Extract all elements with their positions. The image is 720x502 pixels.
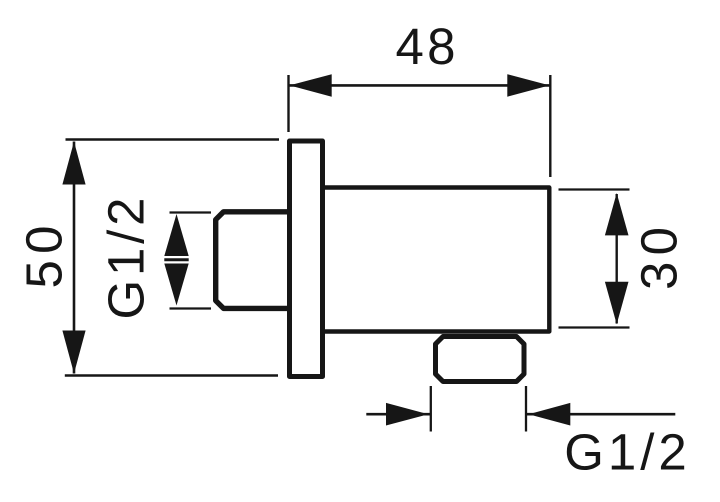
svg-text:G1/2: G1/2 (564, 424, 687, 481)
svg-text:G1/2: G1/2 (98, 198, 155, 320)
